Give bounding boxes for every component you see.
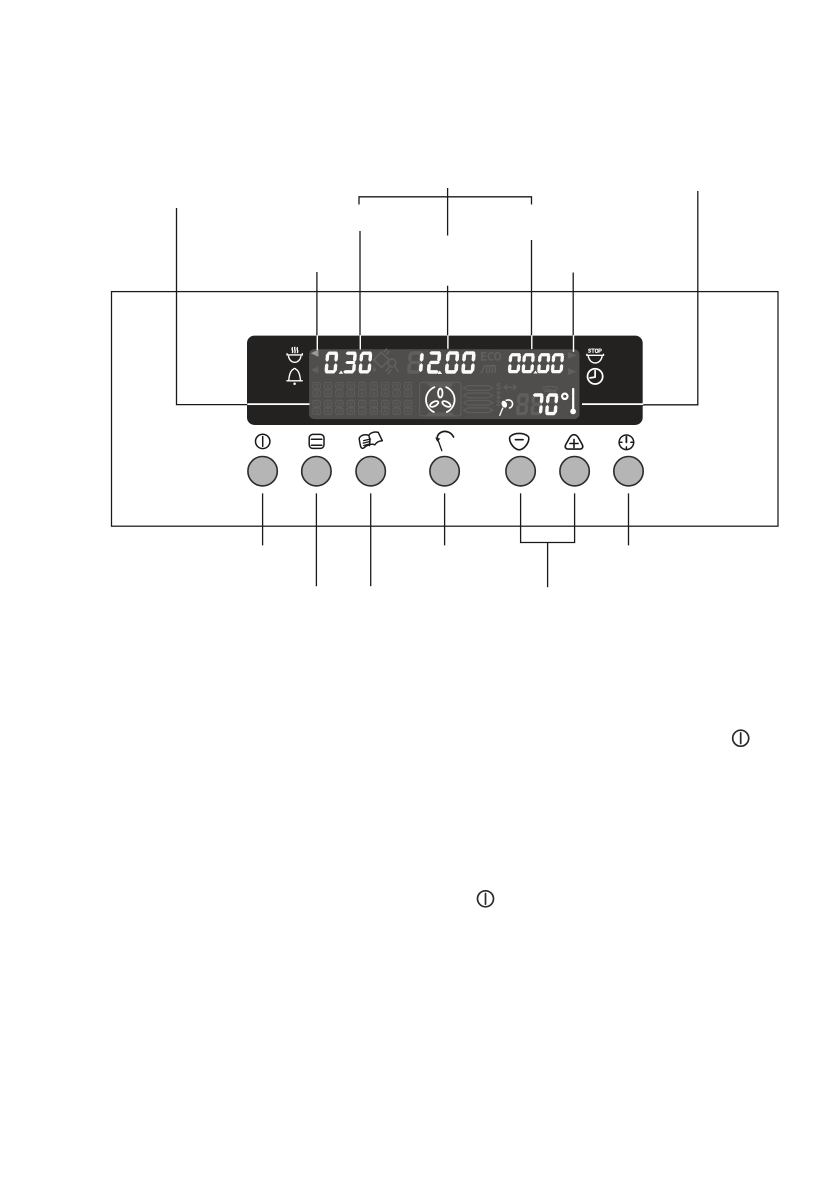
wire: white continuation to 12.00 — [447, 335, 449, 349]
right selection arrow (dim) — [568, 368, 577, 375]
panel outline box — [112, 292, 779, 527]
temperature 70 — [533, 393, 544, 414]
wire: callout to temperature display (right long line) — [642, 191, 698, 405]
display LCD panel (grey) — [309, 349, 579, 419]
wire: white continuation to right arrow — [573, 335, 575, 352]
left selection arrow (lit) — [311, 350, 319, 357]
wire: callout to text area (left long line) — [177, 208, 248, 405]
display bezel (black LCD window) — [247, 336, 643, 425]
thermometer symbol (lit) — [570, 389, 576, 414]
minute-minder bell icon — [287, 368, 302, 384]
grill element icon (dim) — [481, 366, 496, 374]
button 2 (grey key) — [302, 457, 331, 486]
wire: white continuation to 00.00 — [531, 335, 533, 349]
ECO label (dim) — [482, 353, 501, 360]
wire: white continuation to 0.30 — [359, 335, 361, 349]
button 4 (grey key) — [430, 457, 459, 486]
button 6 (grey key) — [560, 457, 589, 486]
wire: keys 5-6 bracket — [521, 493, 575, 542]
recipe book key icon — [359, 432, 382, 448]
time of day clock icon — [588, 369, 603, 384]
wire: bracket center stem — [447, 188, 449, 236]
left selection arrow (dim) — [311, 367, 319, 374]
time of day ghost digit — [407, 351, 423, 374]
wire: callout to timer 00.00 — [531, 240, 533, 337]
increase key icon — [565, 435, 583, 449]
wire: bracket over central display group — [359, 197, 532, 205]
fan symbol (lit) — [426, 387, 455, 412]
wire: key 1 lead — [262, 493, 264, 545]
minute minder time 0.30 — [325, 352, 339, 374]
right selection arrow (dim, callout target) — [568, 352, 577, 359]
wire: white continuation from thermometer — [582, 403, 643, 405]
meat probe symbol (lit) — [500, 400, 513, 416]
button 1 (grey key) — [248, 457, 277, 486]
wire: callout to left arrow marker — [316, 272, 318, 337]
wire: key 4 lead — [444, 493, 446, 545]
text area segment cells (dim) — [313, 382, 320, 396]
stop dish icon — [587, 354, 604, 363]
button 3 (grey key) — [356, 457, 385, 486]
on/off symbol (body text, centre) — [478, 891, 494, 907]
wire: key 2 lead — [315, 493, 317, 586]
wire: callout to clock 12.00 — [447, 286, 449, 337]
STOP label — [588, 349, 601, 353]
wire: keys 5-6 bracket stem — [547, 543, 549, 588]
wire: callout to right arrow marker — [572, 273, 574, 337]
meat probe key icon — [435, 431, 453, 450]
temperature ghost digit 2 — [530, 393, 543, 415]
wire: key 3 lead — [370, 493, 372, 586]
shelf auto marks (dim) — [497, 384, 501, 405]
button 7 (grey key) — [614, 457, 643, 486]
display select key icon — [309, 434, 324, 448]
on/off key icon — [256, 434, 270, 448]
timer key icon — [619, 435, 634, 450]
temperature ghost digit 1 — [516, 393, 529, 415]
decrease key icon — [510, 433, 529, 449]
top heat bar (dim) — [426, 383, 454, 387]
oven function frame (dim) — [420, 382, 461, 415]
time of day 12.00 — [419, 353, 424, 372]
wire: key 7 lead — [628, 493, 630, 545]
degree symbol — [562, 394, 567, 399]
wire: white continuation to left arrow — [316, 335, 318, 350]
shelf level icon (dim) — [464, 386, 493, 413]
cook time 00.00 — [508, 353, 521, 373]
bottom heat bar (dim) — [426, 412, 454, 415]
button 5 (grey key) — [506, 457, 535, 486]
keep-warm dish icon — [287, 347, 302, 362]
bottom heat ghost icon — [542, 386, 558, 392]
on/off symbol (body text, right) — [733, 730, 749, 746]
wire: callout to alarm time 0.30 — [359, 231, 361, 337]
defrost arrow icon (dim) — [504, 385, 517, 390]
aqua clean icon (dim) — [373, 349, 399, 374]
wire: white continuation to text area — [247, 403, 309, 405]
